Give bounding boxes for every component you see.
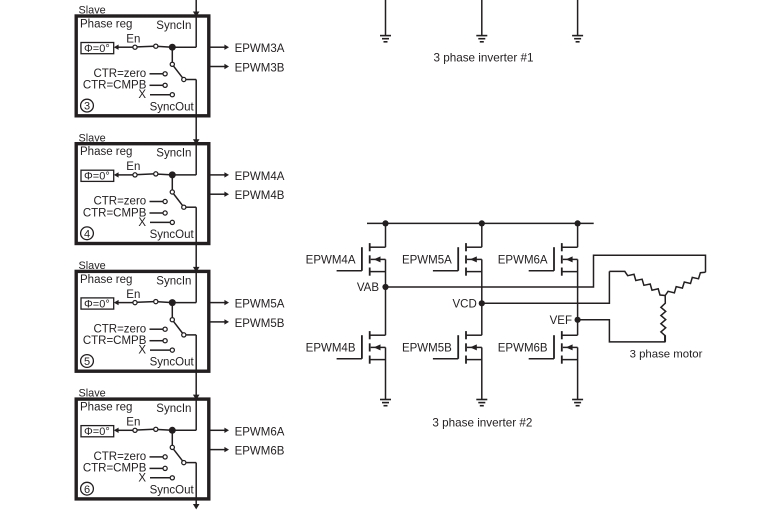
svg-text:EPWM3B: EPWM3B (235, 63, 285, 75)
svg-text:CTR=zero: CTR=zero (93, 323, 146, 335)
svg-text:EPWM5A: EPWM5A (235, 299, 285, 311)
svg-text:CTR=CMPB: CTR=CMPB (83, 463, 147, 475)
svg-text:6: 6 (84, 484, 90, 496)
svg-text:X: X (138, 217, 146, 229)
svg-text:VCD: VCD (453, 298, 477, 310)
svg-text:SyncIn: SyncIn (156, 275, 191, 287)
svg-text:SyncOut: SyncOut (150, 357, 195, 369)
svg-text:EPWM3A: EPWM3A (235, 43, 285, 55)
svg-text:VEF: VEF (550, 315, 572, 327)
svg-text:EPWM5B: EPWM5B (235, 318, 285, 330)
svg-text:4: 4 (84, 228, 90, 240)
svg-text:CTR=zero: CTR=zero (93, 68, 146, 80)
svg-text:EPWM6A: EPWM6A (498, 254, 548, 266)
svg-text:Slave: Slave (79, 132, 106, 144)
svg-text:3 phase inverter #2: 3 phase inverter #2 (432, 417, 532, 430)
svg-text:Φ=0°: Φ=0° (84, 426, 110, 438)
svg-text:VAB: VAB (357, 282, 379, 294)
svg-text:En: En (126, 289, 140, 301)
svg-text:5: 5 (84, 356, 90, 368)
svg-text:EPWM4A: EPWM4A (306, 254, 356, 266)
svg-text:X: X (138, 472, 146, 484)
svg-text:CTR=CMPB: CTR=CMPB (83, 207, 147, 219)
svg-text:SyncOut: SyncOut (150, 229, 195, 241)
svg-text:3: 3 (84, 101, 90, 113)
svg-text:EPWM6A: EPWM6A (235, 426, 285, 438)
svg-text:SyncIn: SyncIn (156, 20, 191, 32)
svg-text:CTR=CMPB: CTR=CMPB (83, 80, 147, 92)
svg-text:CTR=CMPB: CTR=CMPB (83, 335, 147, 347)
svg-text:Phase reg: Phase reg (80, 274, 132, 286)
svg-text:EPWM6B: EPWM6B (498, 343, 548, 355)
svg-text:EPWM6B: EPWM6B (235, 446, 285, 458)
svg-text:EPWM4B: EPWM4B (306, 343, 356, 355)
svg-text:Φ=0°: Φ=0° (84, 171, 110, 183)
svg-text:3 phase motor: 3 phase motor (630, 349, 703, 361)
svg-text:SyncOut: SyncOut (150, 484, 195, 496)
svg-text:CTR=zero: CTR=zero (93, 196, 146, 208)
svg-text:SyncIn: SyncIn (156, 403, 191, 415)
svg-text:SyncIn: SyncIn (156, 148, 191, 160)
svg-text:X: X (138, 345, 146, 357)
svg-text:EPWM4A: EPWM4A (235, 171, 285, 183)
svg-text:En: En (126, 161, 140, 173)
svg-text:CTR=zero: CTR=zero (93, 451, 146, 463)
svg-text:Phase reg: Phase reg (80, 402, 132, 414)
svg-text:SyncOut: SyncOut (150, 101, 195, 113)
svg-text:Phase reg: Phase reg (80, 19, 132, 31)
svg-text:Φ=0°: Φ=0° (84, 298, 110, 310)
svg-text:Phase reg: Phase reg (80, 146, 132, 158)
svg-text:X: X (138, 89, 146, 101)
svg-text:EPWM5A: EPWM5A (402, 254, 452, 266)
svg-text:Slave: Slave (79, 388, 106, 400)
svg-text:EPWM5B: EPWM5B (402, 343, 452, 355)
svg-text:Slave: Slave (79, 5, 106, 17)
svg-text:3 phase inverter #1: 3 phase inverter #1 (433, 52, 533, 65)
svg-text:Slave: Slave (79, 260, 106, 272)
svg-text:EPWM4B: EPWM4B (235, 190, 285, 202)
svg-text:En: En (126, 417, 140, 429)
svg-text:En: En (126, 34, 140, 46)
svg-text:Φ=0°: Φ=0° (84, 43, 110, 55)
